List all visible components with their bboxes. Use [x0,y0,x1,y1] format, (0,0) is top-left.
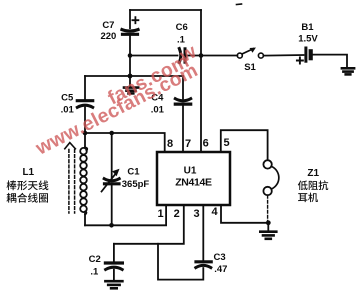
svg-text:2: 2 [174,208,180,220]
svg-text:C3: C3 [214,252,226,263]
antenna rod (dashed) for L1 [69,150,75,214]
node: tank bottom C1 junction [109,223,114,228]
svg-text:ZN414E: ZN414E [175,177,212,189]
svg-text:C7: C7 [102,20,114,31]
svg-text:Z1: Z1 [307,168,319,179]
wire: battery negative to ground corner [313,55,347,67]
wire: pin 2 down and left to C2 node [114,205,184,244]
wire: pin 5 up and right to earphone [221,130,268,160]
wire: C2/pin2 node branch down-right to C3 bottom [158,244,203,280]
wire: pin6 riser (x=201, top rail down to U1 pin 6) [200,10,202,152]
C7 plus sign [132,17,138,23]
wire: j1 to C6 left plate [130,55,178,57]
wire: S1 to battery [264,54,304,57]
svg-text:3: 3 [193,208,199,220]
U1 pin numbers top: 8 7 6 5 [167,137,230,150]
wire: tank top rail to pin 8 [85,133,165,152]
svg-text:U1: U1 [184,166,197,177]
scan speck at top edge [237,3,242,6]
node: junction of C6 / pin6 riser / switch feed [199,53,204,58]
wire: j1 down to j2 [129,56,131,77]
svg-text:.01: .01 [61,105,75,116]
svg-text:L1: L1 [22,167,34,178]
L1 label [22,167,34,178]
wire: pin 4 down and right to ground node [221,205,268,223]
svg-text:4: 4 [211,206,218,218]
wire: tank bottom rail to pin 1 [85,205,166,225]
wire: top rail from C7 top to pin6 riser [130,9,201,11]
svg-text:C2: C2 [89,254,101,265]
wire: j2 right to C4 drop [130,75,183,77]
C4 label [151,93,165,116]
B1 plus sign [297,58,303,64]
svg-text:.47: .47 [214,264,227,275]
C1 label [122,167,150,191]
watermark www.elecfans.com [31,40,201,160]
capacitor C5 [77,76,92,133]
B1 label [298,22,318,45]
svg-text:.1: .1 [90,267,99,278]
switch S1 [237,48,263,59]
node: tank top left junction (L1/C5) [83,131,88,136]
svg-text:B1: B1 [301,22,314,33]
svg-text:C5: C5 [61,93,74,104]
Z1 label [307,168,319,179]
ground: earphone return [260,223,276,239]
ground: under C2 [105,281,122,288]
svg-text:8: 8 [167,138,173,150]
svg-text:365pF: 365pF [122,179,150,190]
svg-text:1: 1 [157,208,163,220]
ground: main decoupling ground under j2 [124,76,138,93]
node: pin4/earphone ground junction [266,220,271,225]
antenna rod arrow tip [65,143,76,149]
svg-text:S1: S1 [244,62,256,73]
C5 label [61,93,75,116]
Z1 Chinese label line 2: 耳机 [298,193,318,203]
C7 label [100,20,116,42]
node: tank top C1 junction [109,131,114,136]
battery B1 [306,48,311,61]
capacitor C4 [175,76,190,152]
capacitor C3 [196,205,211,268]
U1 pin numbers bottom: 1 2 3 4 [157,206,218,220]
L1 Chinese label line 2: 耦合线圈 [6,193,48,203]
svg-text:5: 5 [223,137,229,149]
svg-text:1.5V: 1.5V [298,34,318,45]
L1 Chinese label line 1: 棒形天线 [7,180,49,190]
capacitor C2 [105,244,122,280]
C3 label [214,252,228,275]
inductor L1 [80,133,87,225]
svg-text:220: 220 [100,31,116,42]
node: j2 decoupling junction [128,74,133,79]
capacitor C6 [179,49,237,63]
S1 label [244,62,256,73]
variable capacitor C1 [102,133,120,225]
earphone Z1 [263,160,278,223]
ground: battery return [342,68,354,74]
svg-text:C6: C6 [176,22,188,33]
svg-text:.01: .01 [151,105,165,116]
svg-text:6: 6 [203,138,209,150]
svg-text:C1: C1 [127,167,140,178]
wire: j2 left to C5 drop [85,75,130,77]
node: V+ junction at C7 bottom [128,53,133,58]
Z1 Chinese label line 1: 低阻抗 [298,180,328,190]
svg-text:7: 7 [185,138,191,150]
capacitor C7 [122,10,138,56]
C2 label [89,254,101,278]
C6 label [176,22,188,46]
IC U1 ZN414E [157,152,230,205]
